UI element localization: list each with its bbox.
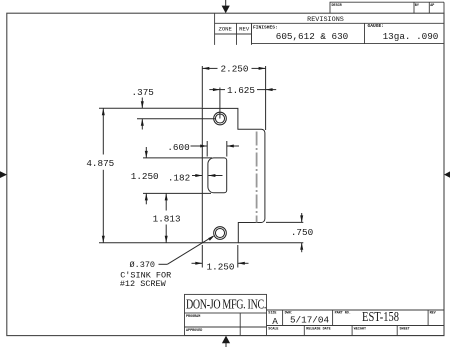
dimension 2.250 <box>202 64 265 130</box>
svg-text:1.625: 1.625 <box>227 85 255 96</box>
countersink leader note <box>120 235 215 289</box>
dimension 4.875 <box>86 108 202 243</box>
latch opening obround <box>208 158 227 193</box>
dimension 1.625 <box>209 85 276 119</box>
svg-text:RELEASE DATE: RELEASE DATE <box>306 328 330 332</box>
dimension .375 <box>99 87 216 129</box>
svg-text:13ga. .090: 13ga. .090 <box>383 31 439 42</box>
bottom screw hole <box>214 227 227 240</box>
svg-text:5/17/04: 5/17/04 <box>290 315 329 326</box>
svg-text:REV: REV <box>239 26 250 33</box>
svg-text:REVISIONS: REVISIONS <box>307 16 344 24</box>
svg-text:PART NO.: PART NO. <box>335 312 351 316</box>
svg-text:FINISHES:: FINISHES: <box>253 25 278 31</box>
svg-text:4.875: 4.875 <box>86 158 114 169</box>
svg-text:.600: .600 <box>167 142 189 153</box>
strike plate outline <box>202 108 265 242</box>
svg-text:.375: .375 <box>132 87 154 98</box>
svg-text:PROGRAM: PROGRAM <box>186 315 200 319</box>
revisions table <box>215 13 444 45</box>
lip bend centerline <box>256 132 258 223</box>
dimension .750 <box>238 213 313 252</box>
svg-text:SIZE: SIZE <box>268 312 276 316</box>
svg-text:605,612 & 630: 605,612 & 630 <box>276 31 349 42</box>
svg-text:EST-158: EST-158 <box>362 309 399 325</box>
svg-text:SCALE: SCALE <box>268 328 278 332</box>
revision history strip top right <box>330 2 444 13</box>
svg-text:AP: AP <box>430 4 434 8</box>
fold mark arrow bottom <box>222 336 230 347</box>
svg-text:DON-JO MFG. INC.: DON-JO MFG. INC. <box>186 296 266 312</box>
svg-text:1.250: 1.250 <box>131 171 159 182</box>
svg-text:GAUGE:: GAUGE: <box>368 23 385 29</box>
svg-text:ZONE: ZONE <box>218 26 232 33</box>
dimension 1.813 <box>153 193 181 242</box>
svg-text:1.813: 1.813 <box>153 214 181 225</box>
svg-text:SHEET: SHEET <box>400 328 410 332</box>
dimension .182 <box>168 172 223 183</box>
svg-text:1.250: 1.250 <box>207 262 235 273</box>
svg-text:#12 SCREW: #12 SCREW <box>120 279 167 289</box>
dimension .600 <box>167 141 239 157</box>
svg-text:REV: REV <box>430 312 437 316</box>
title block grid lines <box>184 313 186 336</box>
svg-text:.182: .182 <box>168 172 190 183</box>
fold mark arrow left <box>0 171 7 178</box>
manufacturer name box <box>185 294 267 313</box>
svg-text:APPROVED: APPROVED <box>186 329 202 333</box>
svg-text:Ø.370: Ø.370 <box>130 260 156 270</box>
top screw hole <box>214 112 227 125</box>
title block <box>185 294 445 335</box>
dimension 1.250 bottom <box>192 245 249 273</box>
svg-text:.750: .750 <box>291 227 313 238</box>
fold mark arrow right <box>444 171 450 177</box>
fold mark arrow top <box>222 0 230 13</box>
gauge box <box>365 23 445 43</box>
dimension 1.250 left <box>131 147 212 204</box>
finishes box <box>252 23 365 43</box>
svg-text:WEIGHT: WEIGHT <box>354 328 366 332</box>
svg-text:DESCR: DESCR <box>332 4 343 8</box>
svg-text:A: A <box>272 316 278 327</box>
svg-text:2.250: 2.250 <box>221 64 249 75</box>
